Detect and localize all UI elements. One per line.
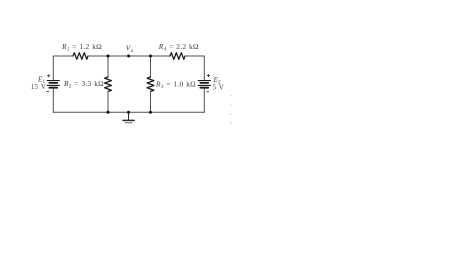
svg-text:15 V: 15 V [31, 83, 46, 91]
resistor R1 [73, 53, 88, 60]
node dot bottom ground [127, 111, 130, 114]
node dot top R3 [149, 55, 152, 58]
label E1 plus [47, 74, 50, 77]
resistor R2 [105, 77, 112, 91]
wire R3 branch lower [150, 91, 152, 112]
resistor R4 [170, 53, 185, 60]
node dot bottom R2 [107, 111, 110, 114]
label E2 minus [206, 91, 209, 93]
node Va dot [127, 55, 130, 58]
battery E2 [198, 81, 210, 88]
wire left branch upper [52, 56, 54, 80]
wire bottom [53, 111, 204, 113]
wire top middle segment [88, 55, 170, 57]
wire right branch upper [203, 56, 205, 80]
resistor R3 [147, 77, 154, 91]
wire R2 branch upper [107, 56, 109, 77]
battery E1 [47, 81, 59, 88]
wire top left segment [53, 55, 73, 57]
wire right branch lower [203, 89, 205, 113]
wire R3 branch upper [150, 56, 152, 77]
ground [123, 112, 134, 123]
wire top right segment [185, 55, 204, 57]
scan specks right margin [230, 95, 231, 124]
label E2 plus [207, 74, 210, 77]
wire R2 branch lower [107, 91, 109, 112]
node dot top R2 [107, 55, 110, 58]
wire left branch lower [52, 89, 54, 113]
svg-text:5 V: 5 V [213, 84, 225, 92]
node dot bottom R3 [149, 111, 152, 114]
label E1 minus [46, 91, 49, 93]
